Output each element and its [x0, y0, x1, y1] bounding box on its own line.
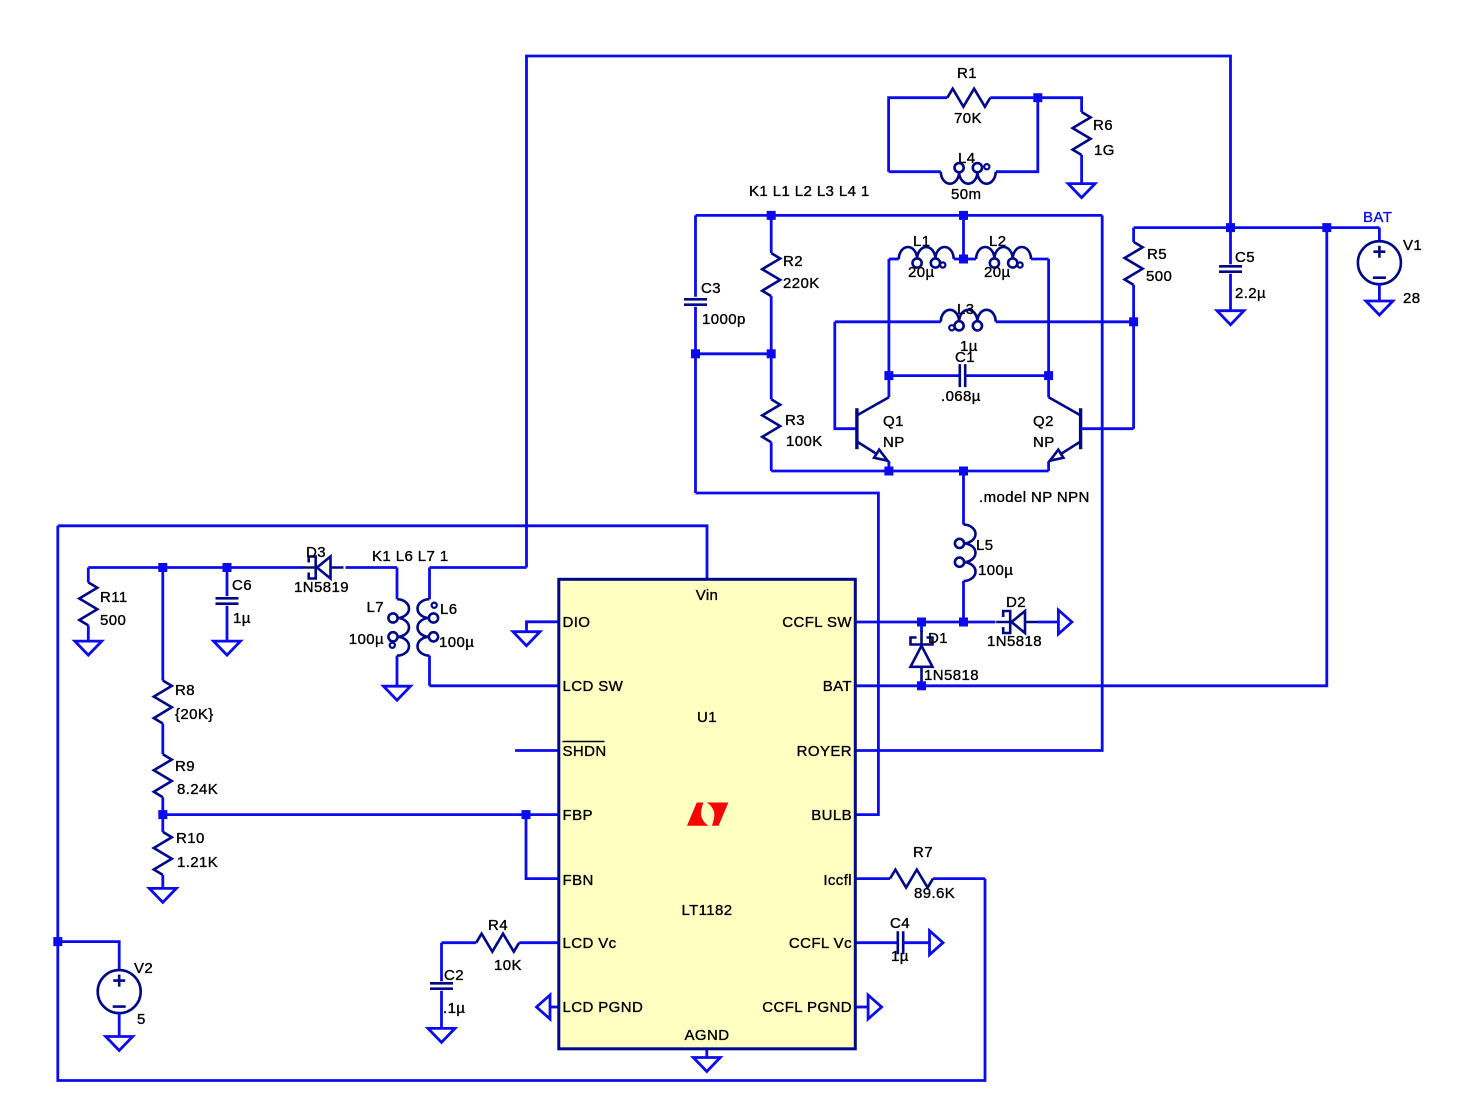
svg-text:C3: C3: [701, 280, 721, 297]
wire Vin supply row from 5V rail to Vin pin: [58, 526, 707, 578]
svg-text:L6: L6: [440, 601, 458, 618]
svg-text:R3: R3: [785, 412, 805, 429]
svg-text:1G: 1G: [1094, 142, 1115, 159]
voltage source V2 5V: [58, 942, 119, 971]
svg-text:.1µ: .1µ: [443, 1000, 465, 1017]
svg-text:28: 28: [1403, 290, 1421, 307]
resistor R2 220K: [770, 215, 773, 253]
svg-text:R4: R4: [488, 917, 508, 934]
junction top rail stub: [959, 211, 968, 220]
svg-text:L7: L7: [367, 599, 385, 616]
junction L5 bottom: [959, 618, 968, 627]
wire L6 top to battery rail: [430, 566, 527, 569]
svg-text:{20K}: {20K}: [175, 706, 214, 723]
svg-text:FBP: FBP: [563, 807, 593, 824]
svg-text:CCFL SW: CCFL SW: [782, 614, 852, 631]
transistor Q2 NP: [1049, 397, 1081, 462]
wire Iccfl row: [856, 877, 890, 880]
svg-text:C6: C6: [232, 577, 252, 594]
svg-text:.068µ: .068µ: [941, 388, 981, 405]
wire D2 to output port: [1038, 621, 1058, 624]
wire L6 bottom to LCD SW pin: [430, 684, 558, 687]
svg-text:100µ: 100µ: [978, 562, 1013, 579]
svg-text:FBN: FBN: [563, 872, 594, 889]
svg-text:L5: L5: [976, 537, 994, 554]
junction C1 right: [1044, 371, 1053, 380]
wire BAT top row: [1134, 226, 1380, 229]
svg-text:D3: D3: [306, 544, 326, 561]
junction BAT branch: [1322, 223, 1331, 232]
inductor L7 (transformer secondary): [396, 568, 399, 600]
svg-text:CCFL Vc: CCFL Vc: [789, 935, 852, 952]
svg-text:L1: L1: [913, 233, 931, 250]
svg-text:R8: R8: [175, 682, 195, 699]
capacitor C1 .068u: [889, 374, 960, 377]
svg-text:DIO: DIO: [563, 614, 591, 631]
ground AGND below U1: [705, 1050, 708, 1058]
svg-text:NP: NP: [883, 434, 905, 451]
resistor R1 70K: [947, 89, 990, 107]
svg-text:1µ: 1µ: [891, 948, 909, 965]
svg-text:1000p: 1000p: [702, 311, 746, 328]
junction R2 bottom: [767, 349, 776, 358]
diode D1 1N5818: [920, 622, 923, 632]
svg-text:1N5818: 1N5818: [924, 667, 979, 684]
wire R8 string from D3 row: [161, 568, 164, 681]
ground below C2: [428, 1028, 455, 1042]
wire Q1 emitter to bus: [888, 462, 891, 471]
inductor L2 20u: [964, 258, 977, 261]
resistor R5 500: [1132, 228, 1135, 242]
resistor R6 1G: [1038, 98, 1082, 112]
ground below R11: [75, 641, 102, 655]
junction C1 left: [884, 371, 893, 380]
svg-text:20µ: 20µ: [984, 264, 1011, 281]
capacitor C5 2.2u: [1229, 228, 1232, 265]
junction L5 tap on bus: [959, 467, 968, 476]
inductor L6 (transformer primary): [428, 568, 431, 600]
svg-text:BAT: BAT: [823, 678, 852, 695]
svg-text:8.24K: 8.24K: [177, 781, 218, 798]
svg-text:R2: R2: [783, 253, 803, 270]
LT logo: [687, 803, 728, 826]
junction C3/R2 row left: [691, 349, 700, 358]
wire LCD Vc row R4/C2: [442, 941, 477, 944]
ground below V1: [1366, 301, 1393, 315]
ground below L7: [384, 686, 411, 700]
ground below R6: [1068, 184, 1095, 198]
wire L2 right leg down to C1/Q2 collector: [1047, 259, 1050, 397]
svg-text:1N5819: 1N5819: [294, 579, 349, 596]
svg-text:K1 L6 L7 1: K1 L6 L7 1: [372, 548, 449, 565]
svg-text:R10: R10: [176, 830, 205, 847]
svg-text:1.21K: 1.21K: [177, 854, 218, 871]
wire Q2 base to R5 leg: [1081, 427, 1134, 430]
ground below V2: [106, 1037, 133, 1051]
junction FBP tap at R9/R10: [158, 810, 167, 819]
capacitor C3 1000p: [684, 299, 707, 304]
svg-text:R5: R5: [1147, 246, 1167, 263]
svg-text:CCFL PGND: CCFL PGND: [762, 999, 852, 1016]
svg-text:U1: U1: [697, 709, 717, 726]
junction V2 branch: [53, 937, 62, 946]
capacitor C6 1u: [226, 568, 229, 597]
svg-text:10K: 10K: [494, 957, 522, 974]
wire BULB row up to C3 bottom: [696, 493, 879, 815]
resistor R4 10K: [476, 934, 519, 952]
svg-text:C1: C1: [955, 349, 975, 366]
svg-text:100µ: 100µ: [349, 631, 384, 648]
capacitor C2 .1u: [440, 943, 443, 982]
wire top battery rail from L6 primary to C5/BAT node: [527, 56, 1231, 568]
port arrow CCFL PGND: [856, 1006, 868, 1009]
junction L1/L2 center tap: [959, 255, 968, 264]
junction R6 tap: [1033, 93, 1042, 102]
wire CCFL Vc row: [856, 941, 898, 944]
svg-text:100K: 100K: [786, 433, 823, 450]
ground below C6: [214, 641, 241, 655]
svg-text:LCD PGND: LCD PGND: [563, 999, 644, 1016]
svg-text:LCD SW: LCD SW: [563, 678, 624, 695]
svg-text:R6: R6: [1093, 117, 1113, 134]
wire L3 left leg to Q1 base: [835, 322, 857, 429]
svg-text:SHDN: SHDN: [563, 743, 607, 760]
inductor L5 100u: [962, 471, 965, 525]
svg-text:500: 500: [1146, 268, 1172, 285]
port arrow LCD PGND: [550, 1006, 558, 1009]
junction FBP/FBN link: [522, 810, 531, 819]
svg-text:D1: D1: [928, 630, 948, 647]
svg-text:Vin: Vin: [696, 587, 719, 604]
inductor L3 1u: [835, 320, 941, 323]
wire royer tank top rail: [696, 214, 1103, 217]
resistor R7 89.6K: [890, 870, 933, 888]
svg-text:100µ: 100µ: [439, 634, 474, 651]
junction R8 branch: [158, 563, 167, 572]
wire CCFL SW row: [856, 621, 996, 624]
svg-text:.model NP NPN: .model NP NPN: [979, 489, 1090, 506]
wire L1 left leg down to C1/Q1 collector: [888, 259, 891, 397]
op-amp U1 LT1182 block: [559, 579, 856, 1049]
svg-text:AGND: AGND: [685, 1027, 730, 1044]
wire loop right side: [996, 98, 1038, 172]
svg-text:R11: R11: [100, 589, 128, 606]
svg-text:R7: R7: [913, 844, 933, 861]
capacitor C4 1u: [898, 931, 903, 954]
junction D1 tap: [917, 618, 926, 627]
wire FBP row to IC: [163, 813, 558, 816]
svg-text:70K: 70K: [954, 110, 982, 127]
svg-text:L2: L2: [989, 233, 1007, 250]
wire stub top rail to L1/L2 junction: [962, 215, 965, 259]
transistor Q1 NP: [857, 397, 889, 462]
resistor R10 1.21K: [161, 815, 164, 832]
junction R2 top: [767, 211, 776, 220]
wire DIO pin to ground stub: [527, 622, 558, 632]
svg-text:ROYER: ROYER: [797, 743, 852, 760]
svg-text:50m: 50m: [951, 186, 981, 203]
svg-text:LT1182: LT1182: [681, 902, 732, 919]
junction C6 branch: [223, 563, 232, 572]
port arrow CCFL SW output: [1058, 610, 1072, 634]
svg-text:Q2: Q2: [1033, 413, 1054, 430]
wire Q2 emitter to bus: [1047, 462, 1050, 471]
junction D1 bottom on BAT row: [917, 681, 926, 690]
wire SHDN stub: [515, 749, 557, 752]
svg-text:5: 5: [137, 1011, 146, 1028]
diode D3 1N5819: [302, 557, 344, 579]
svg-text:V2: V2: [134, 960, 153, 977]
svg-text:89.6K: 89.6K: [914, 885, 955, 902]
svg-text:LCD Vc: LCD Vc: [563, 935, 617, 952]
svg-text:20µ: 20µ: [908, 264, 935, 281]
wire D3 net row R11/C6/D3 to L7: [88, 566, 302, 569]
junction Q1 emitter: [884, 467, 893, 476]
svg-text:R1: R1: [957, 65, 977, 82]
svg-text:BAT: BAT: [1363, 209, 1392, 226]
inductor L4 50m: [941, 172, 996, 184]
svg-text:R9: R9: [175, 758, 195, 775]
junction R5/L3 node: [1129, 317, 1138, 326]
svg-text:L4: L4: [958, 150, 976, 167]
wire C3 to R2 mid row: [696, 352, 772, 355]
svg-text:C4: C4: [890, 915, 910, 932]
ground at DIO: [513, 632, 540, 646]
wire 5V rail left vertical and bottom rail to R7: [58, 526, 985, 1081]
svg-text:2.2µ: 2.2µ: [1235, 285, 1266, 302]
resistor R11 500: [87, 568, 90, 583]
wire ROYER row up to tank top: [856, 215, 1102, 750]
svg-text:K1 L1 L2 L3 L4 1: K1 L1 L2 L3 L4 1: [749, 183, 870, 200]
resistor R9 8.24K: [154, 754, 172, 797]
wire royer left side with C3: [694, 215, 697, 296]
svg-text:Q1: Q1: [883, 413, 904, 430]
wire BAT branch down to BAT pin row: [856, 228, 1327, 686]
inductor L1 20u: [889, 258, 899, 261]
diode D2 1N5818: [996, 611, 1038, 633]
ground below R10: [149, 888, 176, 902]
wire emitter bus: [771, 470, 1048, 473]
junction C5 tap: [1226, 223, 1235, 232]
svg-text:C2: C2: [444, 967, 464, 984]
svg-text:D2: D2: [1006, 594, 1026, 611]
svg-text:C5: C5: [1235, 249, 1255, 266]
svg-text:1N5818: 1N5818: [987, 633, 1042, 650]
svg-text:NP: NP: [1033, 434, 1055, 451]
wire R1/L4 sense loop: [889, 98, 948, 172]
port arrow CCFL Vc: [930, 931, 944, 955]
svg-text:V1: V1: [1403, 237, 1422, 254]
svg-text:1µ: 1µ: [233, 610, 251, 627]
wire FBP to FBN link: [526, 815, 558, 879]
voltage source V1 28V: [1378, 228, 1381, 242]
svg-text:220K: 220K: [783, 275, 820, 292]
svg-text:BULB: BULB: [811, 807, 852, 824]
svg-text:Iccfl: Iccfl: [823, 872, 852, 889]
resistor R3 100K: [770, 354, 773, 400]
ground below C5: [1217, 311, 1244, 325]
resistor R8 {20K}: [154, 681, 172, 724]
svg-text:L3: L3: [957, 301, 975, 318]
svg-text:500: 500: [100, 612, 126, 629]
